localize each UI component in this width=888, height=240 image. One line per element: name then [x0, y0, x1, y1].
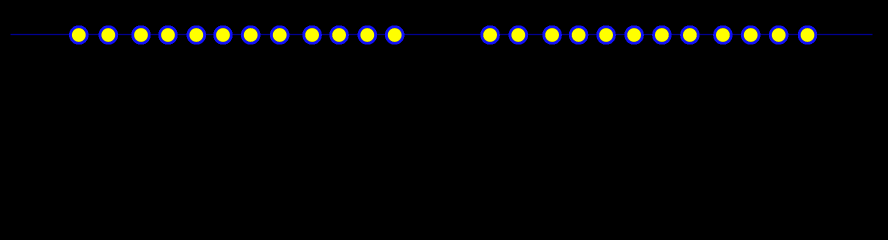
particle bead 18 (right group) [626, 27, 643, 44]
particle bead 20 (right group) [682, 27, 699, 44]
wire (horizontal equilibrium line) [11, 34, 873, 36]
particle bead 8 (left group) [271, 27, 288, 44]
particle bead 7 (left group) [242, 27, 259, 44]
particle bead 2 (left group) [100, 27, 117, 44]
particle bead 24 (right group) [799, 27, 816, 44]
particle bead 3 (left group) [133, 27, 150, 44]
particle bead 4 (left group) [160, 27, 177, 44]
particle bead 14 (right group) [510, 27, 527, 44]
particle bead 12 (left group) [386, 27, 403, 44]
particle bead 22 (right group) [742, 27, 759, 44]
particle bead 19 (right group) [654, 27, 671, 44]
particle bead 9 (left group) [304, 27, 321, 44]
particle bead 6 (left group) [215, 27, 232, 44]
particle bead 11 (left group) [359, 27, 376, 44]
particle bead 15 (right group) [544, 27, 561, 44]
particle bead 17 (right group) [598, 27, 615, 44]
particle bead 1 (left group) [70, 27, 87, 44]
particle bead 16 (right group) [570, 27, 587, 44]
particle bead 23 (right group) [770, 27, 787, 44]
particle bead 10 (left group) [331, 27, 348, 44]
particle bead 21 (right group) [715, 27, 732, 44]
particle bead 13 (right group) [482, 27, 499, 44]
particle bead 5 (left group) [188, 27, 205, 44]
